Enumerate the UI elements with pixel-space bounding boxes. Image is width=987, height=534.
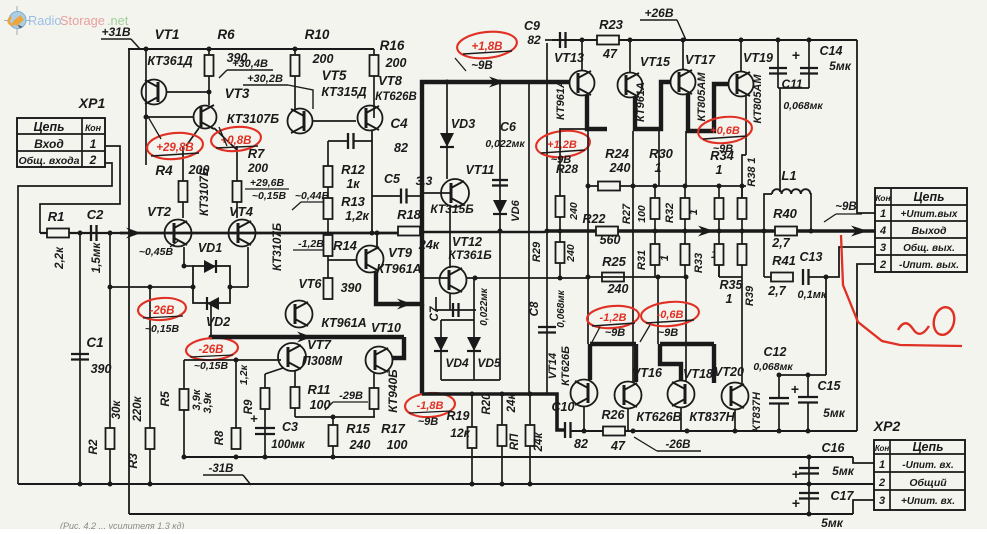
resistor R4 bbox=[182, 146, 184, 218]
connector XP2 table bbox=[874, 440, 965, 510]
red note -26V b bbox=[185, 336, 238, 362]
svg-text:+: + bbox=[250, 411, 258, 426]
wire VT10 collector thick bbox=[392, 337, 404, 358]
svg-text:+0,6В: +0,6В bbox=[710, 125, 740, 137]
svg-text:VT9: VT9 bbox=[388, 245, 413, 260]
svg-text:5мк: 5мк bbox=[823, 406, 846, 420]
svg-text:VT20: VT20 bbox=[714, 365, 744, 379]
svg-text:47: 47 bbox=[602, 47, 618, 61]
red scrawl bbox=[841, 235, 962, 346]
wire C11C14 join bbox=[778, 87, 809, 89]
wire col658 down bbox=[657, 277, 659, 344]
svg-text:82: 82 bbox=[394, 141, 408, 155]
svg-text:КТ315Д: КТ315Д bbox=[321, 85, 366, 99]
svg-text:100мк: 100мк bbox=[271, 439, 306, 451]
svg-text:+: + bbox=[791, 381, 799, 397]
svg-text:R34: R34 bbox=[710, 148, 735, 163]
svg-text:240: 240 bbox=[607, 282, 629, 296]
svg-text:VT7: VT7 bbox=[307, 337, 332, 352]
svg-text:+29,6В: +29,6В bbox=[250, 177, 285, 189]
svg-text:Общий: Общий bbox=[909, 477, 947, 489]
svg-text:R33: R33 bbox=[693, 253, 705, 273]
red note -1,8V bbox=[404, 391, 456, 418]
svg-text:-29В: -29В bbox=[339, 390, 363, 402]
svg-text:2: 2 bbox=[878, 477, 885, 489]
wire vt4 emitter stub bbox=[247, 247, 249, 287]
svg-text:5мк: 5мк bbox=[821, 516, 844, 529]
transistor VT5 bbox=[288, 109, 313, 134]
wire XP1 pin1 bbox=[40, 146, 120, 233]
wire rail512 bbox=[129, 513, 853, 515]
wire vt2 emitter stub bbox=[183, 247, 185, 266]
resistor R5 bbox=[180, 389, 189, 410]
wire rail457 bbox=[184, 456, 853, 458]
wire row186 bbox=[587, 185, 746, 187]
svg-text:240: 240 bbox=[609, 161, 631, 175]
svg-text:1к: 1к bbox=[346, 177, 360, 191]
svg-text:240: 240 bbox=[349, 438, 371, 452]
svg-text:R35: R35 bbox=[720, 278, 744, 292]
svg-text:КТ805АМ: КТ805АМ bbox=[752, 74, 764, 124]
wire R28 top bbox=[560, 129, 587, 144]
resistor R28 bbox=[559, 144, 561, 278]
svg-text:+31В: +31В bbox=[101, 25, 130, 39]
wire VT15 col up bbox=[629, 40, 631, 72]
wire thick vt15 chain bbox=[635, 82, 671, 129]
capacitor C2 bbox=[90, 225, 92, 241]
wire arrow input bbox=[126, 228, 141, 239]
capacitor C11 bbox=[769, 67, 787, 69]
wire VT13 col up bbox=[581, 40, 583, 71]
wire L1 loop bbox=[764, 194, 772, 231]
svg-text:Цепь: Цепь bbox=[912, 440, 943, 454]
transistor VT18 bbox=[668, 381, 695, 408]
wire XP1 pin2 bbox=[18, 163, 112, 484]
resistor R18 bbox=[398, 227, 420, 236]
svg-text:C17: C17 bbox=[831, 489, 855, 503]
resistor Rvt6 390 bbox=[324, 278, 333, 299]
capacitor C16 bbox=[808, 457, 810, 484]
svg-text:Общ. входа: Общ. входа bbox=[19, 155, 80, 167]
svg-text:+30,2В: +30,2В bbox=[247, 73, 283, 85]
resistor R3 bbox=[146, 428, 155, 449]
capacitor C7 bbox=[435, 297, 437, 310]
svg-text:C13: C13 bbox=[800, 250, 823, 264]
svg-text:24к: 24к bbox=[533, 432, 545, 453]
svg-text:0,022мк: 0,022мк bbox=[485, 138, 525, 150]
transistor VT3 bbox=[194, 105, 217, 129]
svg-text:КТ837Н: КТ837Н bbox=[689, 410, 735, 424]
resistor R12 bbox=[324, 166, 333, 187]
svg-text:R2: R2 bbox=[86, 439, 100, 455]
wire vt19 em bbox=[745, 96, 747, 155]
svg-text:1,5мк: 1,5мк bbox=[91, 242, 103, 273]
wire arrow mid out bbox=[698, 226, 714, 237]
resistor R2 bbox=[106, 428, 115, 449]
wire +31V riser bbox=[128, 49, 130, 514]
transistor VT14 bbox=[571, 380, 598, 407]
wire R3 column bbox=[149, 287, 151, 484]
capacitor C10 bbox=[564, 422, 566, 438]
resistor R15 bbox=[332, 417, 334, 457]
wire mid bus right bbox=[545, 229, 875, 232]
svg-text:R27: R27 bbox=[621, 203, 633, 224]
svg-text:ХР1: ХР1 bbox=[78, 95, 106, 111]
wire R5 branch bbox=[183, 360, 185, 389]
svg-text:КТ940Б: КТ940Б bbox=[386, 369, 400, 413]
svg-text:П308М: П308М bbox=[302, 354, 343, 368]
resistor R32 bbox=[684, 186, 686, 198]
svg-text:VT6: VT6 bbox=[299, 277, 323, 291]
svg-text:R23: R23 bbox=[599, 17, 624, 32]
svg-text:5мк: 5мк bbox=[832, 464, 855, 478]
svg-text:VT16: VT16 bbox=[632, 366, 663, 380]
svg-text:Цепь: Цепь bbox=[913, 190, 944, 204]
svg-text:КТ3107Б: КТ3107Б bbox=[199, 168, 211, 216]
svg-text:1: 1 bbox=[655, 161, 662, 175]
svg-text:Кон: Кон bbox=[875, 444, 890, 453]
svg-text:0,068мк: 0,068мк bbox=[783, 100, 823, 112]
wire thick vt20 base bbox=[712, 344, 716, 383]
wire VD45 bot bbox=[441, 379, 474, 381]
wire callout 0,8 bbox=[219, 127, 227, 146]
wire R6 column bbox=[208, 49, 210, 105]
resistor R33 bbox=[684, 231, 686, 244]
svg-text:1: 1 bbox=[716, 163, 723, 177]
svg-text:390: 390 bbox=[91, 362, 112, 376]
svg-text:VT10: VT10 bbox=[371, 321, 401, 335]
svg-text:+Uпит.вых: +Uпит.вых bbox=[901, 209, 958, 220]
diode VD3 bbox=[446, 82, 448, 179]
wire arrow out2 bbox=[851, 226, 868, 237]
wire mid bus left bbox=[120, 232, 424, 235]
svg-text:VT15: VT15 bbox=[640, 55, 671, 69]
svg-text:1,2к: 1,2к bbox=[345, 209, 369, 223]
resistor R14 bbox=[324, 235, 333, 256]
RadioStorage.net logo bbox=[4, 6, 31, 35]
svg-text:VD2: VD2 bbox=[206, 315, 230, 329]
wire bridge bbox=[193, 266, 230, 303]
wire C1 column bbox=[79, 233, 81, 484]
resistor R35 body bbox=[718, 231, 720, 244]
svg-text:200: 200 bbox=[385, 56, 407, 70]
svg-text:24к: 24к bbox=[418, 238, 440, 252]
svg-text:+: + bbox=[792, 466, 800, 482]
svg-text:1: 1 bbox=[659, 255, 671, 261]
wire VD5 col up bbox=[473, 278, 475, 320]
wire rail512 up XP2 bbox=[853, 500, 874, 514]
wire VT12 emitter bbox=[449, 294, 451, 310]
wire vt18 em bbox=[680, 408, 682, 431]
svg-text:R12: R12 bbox=[341, 162, 366, 177]
wire col633 long bbox=[632, 131, 634, 382]
svg-text:~9В: ~9В bbox=[658, 327, 679, 339]
resistor R25 bbox=[602, 273, 624, 282]
svg-text:Storage: Storage bbox=[60, 13, 105, 28]
wire VT9 emitter thick bbox=[376, 82, 569, 304]
wire vt14 em bbox=[583, 406, 585, 431]
wire thick out2 bbox=[660, 342, 714, 346]
capacitor C15 bbox=[807, 375, 809, 397]
wire -26 slash bbox=[634, 437, 657, 451]
capacitor C3 bbox=[264, 420, 266, 457]
svg-text:КТ3107Б: КТ3107Б bbox=[227, 112, 279, 126]
connector XP1 table bbox=[17, 118, 105, 167]
svg-text:R39: R39 bbox=[744, 285, 756, 306]
svg-text:R1: R1 bbox=[48, 209, 65, 224]
transistor VT20 bbox=[722, 383, 749, 410]
svg-text:560: 560 bbox=[600, 233, 621, 247]
svg-text:КТ626В: КТ626В bbox=[636, 410, 681, 424]
svg-text:C2: C2 bbox=[87, 207, 104, 222]
diode VD5 bbox=[473, 320, 475, 380]
svg-text:R31: R31 bbox=[636, 250, 648, 270]
svg-text:2,7: 2,7 bbox=[767, 284, 786, 298]
svg-text:VT1: VT1 bbox=[155, 27, 180, 42]
svg-text:Radio: Radio bbox=[28, 13, 61, 28]
red note +29,8V bbox=[146, 131, 204, 162]
svg-text:0,068мк: 0,068мк bbox=[556, 289, 567, 327]
svg-text:2: 2 bbox=[89, 153, 97, 167]
svg-text:~0,15В: ~0,15В bbox=[194, 360, 229, 372]
svg-text:Кон: Кон bbox=[85, 123, 102, 133]
svg-text:R41: R41 bbox=[772, 253, 796, 268]
svg-text:R20: R20 bbox=[481, 393, 493, 415]
resistor R7 bbox=[236, 146, 238, 218]
svg-text:R11: R11 bbox=[308, 382, 331, 397]
svg-text:C3: C3 bbox=[282, 420, 298, 434]
transistor VT11 bbox=[441, 179, 469, 207]
svg-text:VT3: VT3 bbox=[225, 86, 250, 101]
svg-text:1: 1 bbox=[726, 292, 733, 306]
transistor VT8 bbox=[358, 106, 383, 131]
svg-text:+29,8В: +29,8В bbox=[156, 142, 193, 154]
svg-text:100: 100 bbox=[636, 205, 648, 223]
wire mid thick1 bbox=[212, 335, 404, 339]
diode VD4 bbox=[440, 320, 442, 380]
svg-text:-Uпит. вх.: -Uпит. вх. bbox=[902, 460, 953, 471]
svg-text:+Uпит. вх.: +Uпит. вх. bbox=[901, 496, 955, 507]
svg-text:3: 3 bbox=[880, 242, 886, 254]
svg-text:-26В: -26В bbox=[199, 344, 224, 356]
resistor R8 bbox=[235, 360, 237, 428]
svg-text:+30,4В: +30,4В bbox=[232, 58, 268, 70]
wire col587 down bbox=[587, 129, 589, 344]
svg-text:200: 200 bbox=[247, 161, 268, 175]
svg-text:R18: R18 bbox=[397, 207, 422, 222]
svg-text:C10: C10 bbox=[552, 400, 575, 414]
resistor R6 bbox=[205, 55, 214, 76]
resistor R11 bbox=[294, 371, 296, 417]
svg-text:47: 47 bbox=[610, 439, 626, 453]
transistor VT10 bbox=[366, 347, 393, 374]
wire bias col bbox=[499, 231, 501, 380]
svg-text:R25: R25 bbox=[602, 254, 627, 269]
wire arrow 9V mid bbox=[489, 77, 505, 88]
svg-text:R4: R4 bbox=[155, 163, 173, 178]
svg-text:30к: 30к bbox=[111, 400, 123, 420]
svg-text:1: 1 bbox=[90, 137, 97, 151]
svg-text:R24: R24 bbox=[605, 146, 630, 161]
transistor VT13 bbox=[570, 71, 595, 96]
svg-text:КТ837Н: КТ837Н bbox=[751, 391, 763, 432]
wire VT1 column bbox=[145, 49, 147, 165]
svg-text:~9В: ~9В bbox=[471, 60, 492, 72]
svg-text:КТ361Д: КТ361Д bbox=[147, 54, 192, 68]
svg-text:КТ961А: КТ961А bbox=[321, 316, 366, 330]
wire mid bus mid bbox=[424, 231, 545, 233]
svg-text:4: 4 bbox=[879, 225, 886, 237]
wire top right rail bbox=[552, 39, 857, 41]
transistor VT17 bbox=[671, 70, 696, 95]
red note -26V a bbox=[137, 296, 186, 321]
logo text bbox=[28, 13, 129, 28]
svg-text:КТ626Б: КТ626Б bbox=[560, 346, 572, 386]
svg-text:Выход: Выход bbox=[911, 225, 947, 237]
wire fb line thick bbox=[422, 394, 565, 430]
svg-text:R6: R6 bbox=[217, 27, 235, 42]
red note +1,2V bbox=[535, 128, 591, 160]
svg-text:~9В: ~9В bbox=[418, 416, 439, 428]
resistor R13 bbox=[324, 198, 333, 219]
svg-text:240: 240 bbox=[568, 202, 580, 221]
wire top rail bbox=[128, 48, 374, 50]
wire R16 column bbox=[373, 49, 375, 118]
svg-text:RП: RП bbox=[509, 433, 521, 450]
svg-text:+: + bbox=[792, 47, 800, 63]
svg-text:VD3: VD3 bbox=[451, 117, 475, 131]
svg-text:R26: R26 bbox=[602, 408, 626, 422]
svg-text:R10: R10 bbox=[305, 27, 330, 42]
svg-text:VT12: VT12 bbox=[452, 235, 482, 249]
svg-text:5мк: 5мк bbox=[829, 59, 852, 73]
wire col686 down bbox=[685, 277, 687, 381]
svg-text:C16: C16 bbox=[822, 441, 846, 455]
wire VT19 col up bbox=[740, 40, 742, 72]
capacitor C13 bbox=[802, 269, 804, 285]
wire col742 down bbox=[741, 277, 743, 384]
resistor R26 bbox=[603, 427, 625, 436]
svg-text:R8: R8 bbox=[214, 430, 226, 445]
svg-text:КТ3107Б: КТ3107Б bbox=[272, 223, 284, 271]
svg-text:100: 100 bbox=[387, 438, 408, 452]
wire R41 branch bbox=[763, 231, 765, 277]
wire thick vt17 em bbox=[688, 84, 729, 131]
wire thick vt13 em bbox=[587, 95, 607, 129]
svg-text:3,9к: 3,9к bbox=[202, 391, 214, 413]
wire line375 bbox=[779, 374, 826, 376]
svg-text:Кон: Кон bbox=[875, 193, 890, 203]
wire VT11 VT12 col bbox=[449, 207, 451, 268]
svg-text:0,1мк: 0,1мк bbox=[797, 289, 827, 301]
svg-text:-1,8В: -1,8В bbox=[417, 400, 444, 412]
resistor R41 bbox=[771, 273, 793, 282]
svg-text:-26В: -26В bbox=[150, 305, 175, 317]
red note +1,8V bbox=[456, 29, 518, 61]
svg-text:1: 1 bbox=[880, 208, 886, 220]
wire input line bbox=[40, 232, 122, 234]
svg-text:КТ961А: КТ961А bbox=[376, 262, 421, 276]
resistor R31 bbox=[654, 231, 656, 244]
svg-text:C7: C7 bbox=[429, 306, 441, 321]
wire bridge bottom bbox=[210, 303, 212, 337]
diode VD1 bbox=[204, 260, 216, 273]
svg-text:R19: R19 bbox=[447, 409, 470, 423]
svg-text:C4: C4 bbox=[390, 116, 408, 131]
svg-text:~9В: ~9В bbox=[835, 201, 856, 213]
svg-text:3,3: 3,3 bbox=[416, 174, 433, 188]
svg-text:VD5: VD5 bbox=[477, 356, 501, 370]
svg-text:~0,45В: ~0,45В bbox=[139, 246, 174, 258]
svg-text:R13: R13 bbox=[341, 194, 366, 209]
transistor VT4 bbox=[229, 220, 256, 247]
resistor R22 bbox=[596, 227, 618, 236]
wire C14 col bbox=[808, 40, 810, 88]
svg-text:R16: R16 bbox=[380, 38, 405, 53]
wire C11 col bbox=[777, 40, 779, 88]
svg-text:VT19: VT19 bbox=[743, 51, 773, 65]
svg-text:C6: C6 bbox=[500, 120, 517, 134]
svg-text:КТ361Б: КТ361Б bbox=[448, 248, 492, 262]
resistor R24 bbox=[598, 182, 620, 191]
wire vt20 em bbox=[734, 410, 736, 431]
svg-text:100: 100 bbox=[310, 398, 331, 412]
wire thick vt18 base bbox=[660, 344, 681, 380]
svg-text:VT5: VT5 bbox=[322, 68, 347, 83]
transistor VT7 bbox=[278, 343, 306, 371]
resistor R29 bbox=[556, 242, 565, 263]
wire R2 column bbox=[109, 233, 111, 484]
svg-text:C12: C12 bbox=[764, 345, 787, 359]
transistor VT16 bbox=[615, 382, 642, 409]
resistor R23 bbox=[597, 36, 619, 45]
svg-text:12к: 12к bbox=[450, 426, 470, 440]
wire vt16 em bbox=[627, 409, 629, 431]
red note -1,2Vb bbox=[586, 304, 640, 330]
svg-text:C1: C1 bbox=[86, 335, 103, 350]
svg-text:C11: C11 bbox=[781, 77, 802, 91]
svg-text:82: 82 bbox=[527, 33, 541, 47]
svg-text:VD1: VD1 bbox=[198, 241, 222, 255]
red note +0,6V bbox=[697, 114, 753, 146]
svg-text:390: 390 bbox=[341, 281, 362, 295]
svg-text:R15: R15 bbox=[346, 421, 371, 436]
resistor R27 bbox=[654, 186, 656, 198]
transistor VT2 bbox=[165, 220, 192, 247]
svg-text:C9: C9 bbox=[524, 19, 540, 33]
svg-text:~0,15В: ~0,15В bbox=[252, 190, 287, 202]
svg-text:VT14: VT14 bbox=[547, 353, 559, 379]
svg-text:2: 2 bbox=[879, 259, 886, 271]
wire VT17 col up bbox=[682, 40, 684, 70]
svg-text:Цепь: Цепь bbox=[33, 120, 64, 134]
svg-text:-31В: -31В bbox=[209, 463, 234, 475]
resistor R38 body bbox=[741, 186, 743, 198]
svg-text:R32: R32 bbox=[664, 203, 676, 223]
svg-text:С8: С8 bbox=[529, 301, 541, 316]
svg-text:КТ315Б: КТ315Б bbox=[430, 202, 474, 216]
svg-text:VD6: VD6 bbox=[510, 199, 522, 221]
wire R11R17 join bbox=[295, 416, 375, 418]
svg-text:-1,2В: -1,2В bbox=[298, 238, 324, 250]
svg-text:82: 82 bbox=[574, 437, 588, 451]
svg-text:+: + bbox=[792, 495, 800, 511]
svg-text:2,2к: 2,2к bbox=[54, 246, 66, 270]
svg-text:2,7: 2,7 bbox=[771, 236, 790, 250]
resistor R16 bbox=[370, 55, 379, 76]
svg-text:1: 1 bbox=[879, 459, 885, 471]
capacitor C8 bbox=[538, 326, 556, 328]
